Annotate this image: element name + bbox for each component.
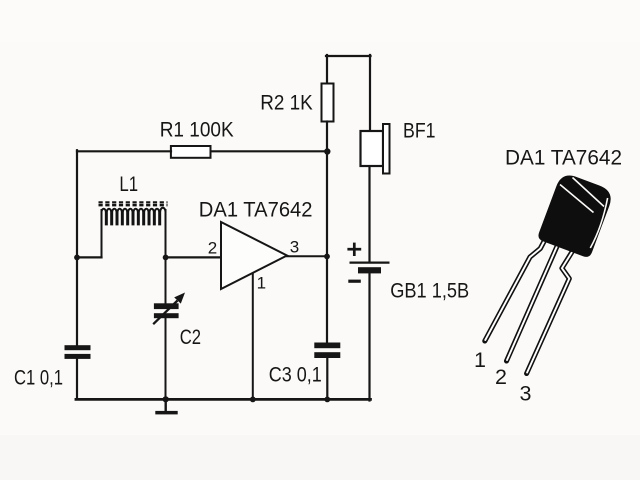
wire L1 right leg to node [165, 210, 167, 257]
svg-text:C1 0,1: C1 0,1 [14, 366, 63, 390]
svg-text:R2 1K: R2 1K [260, 90, 313, 114]
svg-text:3: 3 [290, 238, 299, 257]
junction node pin3/rail [324, 254, 330, 260]
svg-text:L1: L1 [119, 172, 138, 196]
svg-text:3: 3 [520, 382, 532, 406]
op-amp DA1 triangle [221, 222, 287, 289]
junction node C2/ground [163, 396, 169, 402]
junction node R1/R2 [324, 148, 330, 154]
wire BF1 top lead [369, 55, 371, 131]
svg-text:R1 100K: R1 100K [160, 117, 235, 141]
wire op-amp input pin 2 [166, 256, 221, 258]
wire battery positive lead [368, 166, 370, 262]
svg-text:DA1 TA7642: DA1 TA7642 [505, 145, 622, 169]
svg-text:2: 2 [495, 365, 507, 389]
junction node pin1/bottom rail [250, 397, 256, 403]
junction node L1/C2/pin2 [163, 255, 169, 261]
battery plus sign [347, 243, 361, 256]
svg-text:2: 2 [208, 238, 217, 257]
wire L1 left leg [101, 210, 103, 257]
wire C2 top lead [165, 257, 167, 303]
wire left rail [76, 150, 78, 345]
capacitor C3 plates [314, 343, 340, 359]
wire R2 rail to pin3 node [326, 152, 328, 258]
battery GB1 short thick plate [358, 267, 381, 273]
wire R1 left segment [77, 150, 171, 152]
wire R2 bottom lead [326, 122, 328, 153]
svg-text:1: 1 [257, 273, 266, 292]
battery minus sign [348, 280, 361, 283]
wire C3 bottom lead [326, 358, 328, 399]
wire left rail lower to bottom [76, 359, 78, 400]
inductor L1 coil [102, 208, 166, 226]
svg-text:DA1 TA7642: DA1 TA7642 [199, 197, 313, 221]
wire op-amp pin 1 to bottom rail [252, 272, 254, 399]
transistor package DA1 highlight edges [560, 178, 608, 249]
resistor R1 [171, 146, 211, 158]
svg-text:C3 0,1: C3 0,1 [269, 362, 322, 386]
wire R1 right segment [211, 150, 328, 152]
svg-text:1: 1 [474, 348, 486, 372]
wire left rail to L1 [77, 256, 102, 258]
transistor package DA1 lead 3 [527, 250, 574, 374]
capacitor C2 arrow [153, 293, 185, 325]
junction node left rail/L1 [74, 255, 80, 261]
transistor package DA1 body [537, 171, 615, 258]
ground symbol [155, 411, 177, 415]
transistor package DA1 lead 1 [485, 232, 549, 341]
svg-text:C2: C2 [180, 325, 201, 349]
wire pin3 node to C3 [326, 257, 328, 343]
inductor L1 core (dashed) [99, 202, 168, 205]
wire C2 bottom lead [165, 317, 167, 399]
wire R2 top lead [326, 55, 328, 84]
capacitor C1 plates [65, 345, 91, 359]
capacitor C2 plates (variable) [154, 303, 179, 318]
speaker BF1 flange [383, 124, 390, 174]
wire ground stub [164, 399, 166, 411]
wire top (R2 rail to BF1 rail) [326, 55, 371, 57]
battery GB1 long plate [350, 262, 390, 264]
transistor package DA1 lead 2 [507, 243, 559, 361]
wire bottom rail [76, 398, 371, 401]
speaker BF1 body [361, 131, 384, 166]
svg-text:BF1: BF1 [403, 119, 436, 143]
junction node C3/bottom rail [324, 397, 330, 403]
svg-text:GB1 1,5B: GB1 1,5B [390, 278, 469, 302]
wire battery negative to bottom rail [368, 273, 370, 401]
wire op-amp output pin 3 [287, 255, 327, 257]
resistor R2 [322, 84, 334, 122]
